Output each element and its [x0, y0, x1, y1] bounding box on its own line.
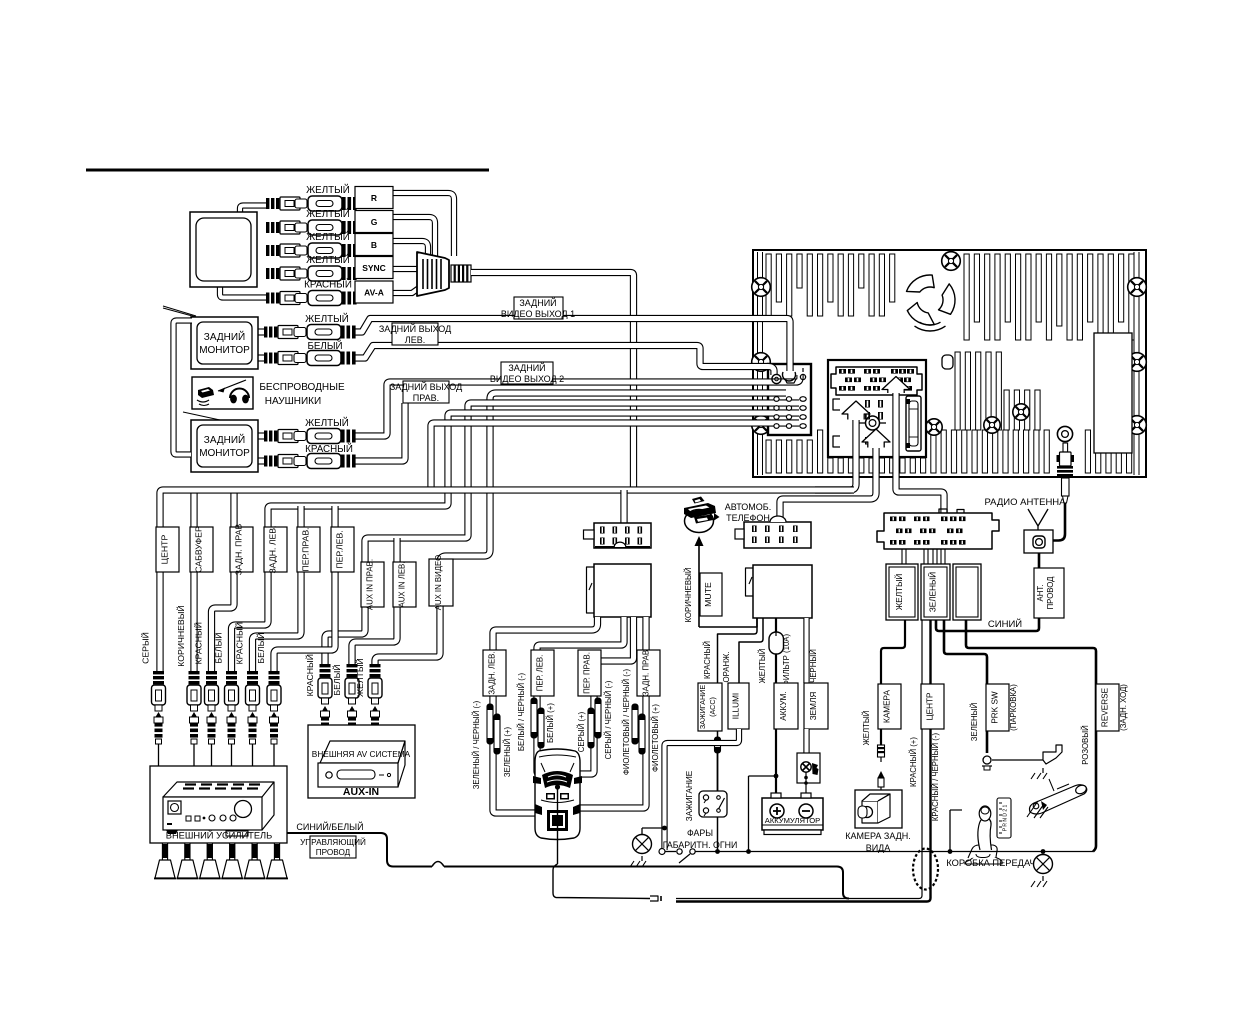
label box ЗАДНИЙ ВЫХОД ПРАВ	[403, 381, 449, 403]
wire plug gap	[650, 896, 658, 901]
label box УПРАВЛЯЮЩИЙ ПРОВОД	[310, 836, 356, 858]
svg-text:ЗАДН. ПРАВ: ЗАДН. ПРАВ	[234, 524, 244, 576]
svg-text:КОРОБКА ПЕРЕДАЧ: КОРОБКА ПЕРЕДАЧ	[946, 858, 1035, 868]
svg-text:ЦЕНТР: ЦЕНТР	[926, 692, 935, 720]
RCA female jack row R	[295, 199, 307, 208]
label box ILLUMI	[728, 683, 749, 729]
screw mid right	[1128, 353, 1147, 372]
svg-text:ЖЕЛТЫЙ: ЖЕЛТЫЙ	[354, 658, 365, 697]
svg-text:КРАСНЫЙ: КРАСНЫЙ	[304, 654, 315, 696]
RCA plug ЗАДН. ЛЕВ. column	[229, 712, 235, 717]
wire rca out 1 to aux video	[375, 393, 786, 664]
svg-text:G: G	[371, 217, 378, 227]
leader line rear monitor 2	[183, 412, 220, 420]
antenna cable	[1052, 503, 1065, 541]
svg-text:ЗЕЛЕНЫЙ: ЗЕЛЕНЫЙ	[970, 703, 979, 741]
RCA female jack m1 yellow	[294, 328, 306, 337]
svg-text:КОРИЧНЕВЫЙ: КОРИЧНЕВЫЙ	[175, 605, 186, 666]
svg-text:КРАСНЫЙ (+): КРАСНЫЙ (+)	[909, 737, 918, 787]
label box АНТ ПРОВОД	[1034, 568, 1064, 618]
wire to amplifier	[193, 744, 195, 766]
heatsink fins top left	[766, 254, 771, 316]
trapezoid multi connector	[417, 252, 449, 296]
RCA female jack m2 yellow	[294, 432, 306, 441]
RCA female jack row SYNC	[295, 269, 307, 278]
svg-text:ЗЕМЛЯ: ЗЕМЛЯ	[809, 692, 818, 721]
wire black ground pair	[803, 618, 809, 683]
wire to amplifier	[231, 744, 233, 766]
camera plug symbols	[878, 745, 885, 757]
RCA male plug row R	[266, 198, 269, 209]
iso connector A	[744, 522, 811, 548]
blank plate right	[1094, 333, 1132, 453]
RCA male plug m1 yellow	[264, 327, 267, 338]
svg-text:ЗАДН. ЛЕВ.: ЗАДН. ЛЕВ.	[488, 651, 497, 694]
wire yellow battery	[775, 618, 777, 683]
svg-text:ЖЕЛТЫЙ: ЖЕЛТЫЙ	[893, 574, 904, 611]
wire AV-A to trapezoid	[393, 288, 419, 293]
vent hole	[942, 355, 953, 369]
transmission arrow	[218, 380, 246, 391]
rca block pin grid	[774, 397, 779, 402]
RCA female jack row AV-A	[295, 294, 307, 303]
label box ЖЕЛТЫЙ wire	[886, 564, 918, 620]
svg-text:ЖЕЛТЫЙ: ЖЕЛТЫЙ	[305, 313, 349, 325]
svg-text:СИНИЙ/БЕЛЫЙ: СИНИЙ/БЕЛЫЙ	[296, 821, 363, 832]
RCA jack aux БЕЛЫЙ	[347, 664, 358, 667]
svg-text:НАУШНИКИ: НАУШНИКИ	[265, 396, 321, 407]
svg-text:AV-A: AV-A	[364, 288, 384, 298]
svg-text:ЗАДН. ЛЕВ.: ЗАДН. ЛЕВ.	[268, 525, 278, 573]
wire front right drop	[253, 506, 302, 671]
car trunk	[547, 810, 568, 831]
label box ЗАДНИЙ ВИДЕО ВЫХОД 2	[501, 362, 553, 384]
RCA plug САБВУФЕР column	[191, 712, 197, 717]
leader line monitor 1	[163, 306, 196, 316]
svg-text:КОРИЧНЕВЫЙ: КОРИЧНЕВЫЙ	[684, 567, 693, 622]
RCA female jack row G	[295, 223, 307, 232]
RCA male plug row AV-A	[266, 293, 269, 304]
car mirrors	[533, 776, 541, 784]
wire rear right speaker pair	[578, 617, 646, 808]
label box ЗАДНИЙ ВИДЕО ВЫХОД 1	[514, 297, 563, 319]
wire rear right drop	[212, 490, 235, 671]
RCA jack ЦЕНТР column	[153, 671, 164, 674]
label box ЗЕЛЕНЫЙ wire	[921, 564, 950, 620]
wire blue antenna lead	[936, 553, 1039, 631]
RCA male plug m1 white	[264, 353, 267, 364]
RCA female jack row B	[295, 246, 307, 255]
svg-text:ФАРЫ: ФАРЫ	[687, 828, 713, 838]
wires R G B to trapezoid connector	[393, 193, 454, 256]
chassis bolt box	[797, 753, 820, 783]
wire loop ellipse	[913, 849, 938, 890]
svg-text:БЕСПРОВОДНЫЕ: БЕСПРОВОДНЫЕ	[259, 382, 345, 393]
svg-text:МОНИТОР: МОНИТОР	[199, 345, 250, 356]
cable from trapezoid to AV bus	[471, 273, 634, 491]
svg-text:АНТ.: АНТ.	[1036, 585, 1045, 602]
cable arrow to power connector	[780, 448, 876, 517]
label box AUX IN ВИДЕО	[429, 559, 453, 606]
antenna jack on unit	[1057, 426, 1072, 441]
svg-text:СЕРЫЙ (+): СЕРЫЙ (+)	[577, 711, 586, 752]
screw bottom right	[1128, 416, 1147, 435]
rca block jack U	[783, 372, 796, 381]
label box ЗАДН. ПРАВ	[230, 527, 253, 572]
connector stubs to boxes	[901, 549, 903, 564]
rca output block	[768, 364, 811, 435]
wire lamp link	[642, 827, 665, 829]
svg-text:ПРОВОД: ПРОВОД	[1046, 576, 1055, 610]
svg-text:БЕЛЫЙ: БЕЛЫЙ	[255, 632, 266, 663]
svg-text:ЗАЖИГАНИЕ: ЗАЖИГАНИЕ	[698, 685, 707, 729]
RCA jack САБВУФЕР column	[189, 671, 200, 674]
svg-text:ЗАДН. ПРАВ: ЗАДН. ПРАВ	[642, 650, 651, 696]
cable arrow to main harness connector	[896, 393, 944, 514]
amp control wire	[287, 833, 432, 867]
component monitor box	[190, 212, 257, 287]
heatsink fins right edge column	[1133, 252, 1135, 475]
svg-text:ГАБАРИТН. ОГНИ: ГАБАРИТН. ОГНИ	[663, 840, 738, 850]
av system drawing	[320, 741, 405, 763]
RCA male plug row SYNC	[266, 268, 269, 279]
box third wire	[953, 564, 981, 620]
panel right connector	[906, 396, 921, 451]
wire to amplifier	[211, 744, 213, 766]
svg-text:ЖЕЛТЫЙ: ЖЕЛТЫЙ	[305, 417, 349, 429]
wire aux in left drop	[352, 538, 397, 664]
svg-text:ЗАДНИЙ ВЫХОД: ЗАДНИЙ ВЫХОД	[390, 381, 462, 392]
svg-text:ВНЕШНИЙ УСИЛИТЕЛЬ: ВНЕШНИЙ УСИЛИТЕЛЬ	[166, 830, 272, 841]
wire red link	[749, 775, 777, 777]
wire black to bolt	[803, 729, 809, 755]
label box САБВУФЕР	[190, 527, 213, 572]
iso socket pins row3	[839, 386, 846, 391]
label box ПЕР.ЛЕВ.	[331, 527, 354, 572]
svg-text:САБВУФЕР: САБВУФЕР	[194, 526, 204, 573]
svg-text:СИНИЙ: СИНИЙ	[988, 618, 1022, 630]
svg-text:ЗАДНИЙ ВЫХОД: ЗАДНИЙ ВЫХОД	[379, 323, 451, 334]
svg-text:БЕЛЫЙ (+): БЕЛЫЙ (+)	[546, 703, 555, 743]
svg-text:ОРАНЖ.: ОРАНЖ.	[722, 652, 731, 683]
svg-text:ЖЕЛТЫЙ: ЖЕЛТЫЙ	[306, 184, 350, 196]
svg-text:БЕЛЫЙ: БЕЛЫЙ	[331, 664, 342, 695]
mute wire with arrow	[698, 545, 700, 627]
headphone transmitter icon	[198, 387, 214, 398]
svg-text:ЗАДНИЙ: ЗАДНИЙ	[204, 330, 245, 343]
external amplifier box	[150, 766, 287, 843]
antenna plug	[1063, 443, 1068, 452]
svg-text:ВНЕШНЯЯ AV СИСТЕМА: ВНЕШНЯЯ AV СИСТЕМА	[312, 749, 411, 759]
wire ignition acc	[718, 618, 758, 683]
wire rca out 3 speaker bus	[232, 413, 800, 671]
screw inner 2	[984, 417, 1000, 433]
RCA plug aux КРАСНЫЙ	[322, 706, 328, 711]
svg-text:КРАСНЫЙ: КРАСНЫЙ	[193, 622, 204, 664]
svg-text:ВИДЕО ВЫХОД 2: ВИДЕО ВЫХОД 2	[490, 374, 564, 384]
speaker connector body	[594, 564, 651, 617]
screw bottom left	[752, 416, 771, 435]
screw top left	[752, 278, 771, 297]
svg-text:(ПАРКОВКА): (ПАРКОВКА)	[1009, 684, 1018, 731]
crimp connectors rear left	[487, 704, 493, 744]
amplifier drawing	[163, 782, 274, 797]
label box ЗАДН ПРАВ speaker	[637, 650, 660, 696]
wire m1 white to head unit	[353, 346, 774, 376]
main harness connector 16pin	[877, 513, 999, 549]
label box ЗАДНИЙ ВЫХОД ЛЕВ	[392, 323, 438, 345]
RCA plug ПЕР.ПРАВ. column	[250, 712, 256, 717]
label box R	[355, 187, 393, 209]
svg-text:ПЕР. ЛЕВ.: ПЕР. ЛЕВ.	[536, 655, 545, 692]
wire to amplifier	[158, 744, 160, 766]
svg-text:КРАСНЫЙ: КРАСНЫЙ	[304, 279, 352, 291]
RCA plug ЗАДН. ПРАВ column	[209, 712, 215, 717]
RCA male plug row G	[266, 222, 269, 233]
wire red pair from harness	[676, 620, 922, 899]
leader line rear monitor 1	[163, 308, 196, 317]
fuse filter oval	[769, 632, 784, 654]
wire m2 red	[353, 403, 405, 461]
label box MUTE	[700, 573, 722, 616]
label box SYNC	[355, 257, 393, 279]
screw inner 1	[926, 419, 942, 435]
wire rca out 2 aux in bus	[325, 403, 799, 664]
svg-text:КРАСНЫЙ: КРАСНЫЙ	[703, 641, 712, 679]
svg-text:ЗЕЛЕНЫЙ: ЗЕЛЕНЫЙ	[927, 572, 938, 612]
svg-text:РОЗОВЫЙ: РОЗОВЫЙ	[1081, 725, 1090, 765]
svg-text:РАДИО АНТЕННА: РАДИО АНТЕННА	[984, 497, 1066, 508]
svg-text:ЖЕЛТЫЙ: ЖЕЛТЫЙ	[306, 254, 350, 266]
svg-text:КАМЕРА: КАМЕРА	[883, 690, 892, 723]
main connector panel	[828, 360, 926, 457]
svg-text:B: B	[371, 240, 377, 250]
cable ribs	[451, 265, 454, 282]
gear indicator panel	[997, 798, 1011, 838]
heatsink fins left edge column	[757, 252, 759, 475]
external AV system box	[308, 725, 415, 798]
svg-text:ЗАДНИЙ: ЗАДНИЙ	[519, 297, 556, 308]
panel left brackets	[833, 399, 840, 410]
svg-text:ЖЕЛТЫЙ: ЖЕЛТЫЙ	[306, 208, 350, 220]
svg-text:АВТОМОБ.: АВТОМОБ.	[725, 502, 771, 512]
cable arrow to speaker connector	[815, 420, 856, 490]
iso socket pins row1	[839, 369, 846, 374]
ground handbrake	[1042, 768, 1044, 773]
wire illumi below	[665, 729, 740, 850]
svg-text:СЕРЫЙ / ЧЕРНЫЙ (-): СЕРЫЙ / ЧЕРНЫЙ (-)	[604, 680, 613, 759]
svg-text:КРАСНЫЙ / ЧЕРНЫЙ (-): КРАСНЫЙ / ЧЕРНЫЙ (-)	[931, 733, 940, 822]
svg-text:ФИОЛЕТОВЫЙ / ЧЕРНЫЙ (-): ФИОЛЕТОВЫЙ / ЧЕРНЫЙ (-)	[622, 668, 631, 775]
jump over	[432, 862, 444, 867]
svg-text:МОНИТОР: МОНИТОР	[199, 448, 250, 459]
label box G	[355, 211, 393, 233]
svg-text:БЕЛЫЙ / ЧЕРНЫЙ (-): БЕЛЫЙ / ЧЕРНЫЙ (-)	[517, 673, 526, 752]
handbrake bracket	[1043, 745, 1062, 764]
RCA plug aux ЖЕЛТЫЙ	[372, 706, 378, 711]
svg-text:AUX IN ЛЕВ.: AUX IN ЛЕВ.	[398, 562, 407, 608]
label box AUX IN ЛЕВ	[393, 562, 416, 607]
svg-text:R: R	[371, 193, 377, 203]
RCA jack ПЕР.ЛЕВ. column	[269, 671, 280, 674]
svg-text:ФИОЛЕТОВЫЙ (+): ФИОЛЕТОВЫЙ (+)	[651, 704, 660, 772]
wireless headphones box	[192, 377, 253, 409]
svg-text:АККУМУЛЯТОР: АККУМУЛЯТОР	[765, 816, 820, 825]
svg-text:ЗАДНИЙ: ЗАДНИЙ	[508, 362, 545, 373]
svg-text:REVERSE: REVERSE	[1101, 687, 1110, 727]
rca block jack pin	[800, 374, 805, 379]
car center dot	[555, 784, 560, 789]
car windshield	[542, 771, 573, 788]
wire green parking	[944, 620, 987, 753]
svg-text:ЗЕЛЕНЫЙ / ЧЕРНЫЙ (-): ЗЕЛЕНЫЙ / ЧЕРНЫЙ (-)	[472, 700, 481, 789]
ignition switch box	[699, 791, 727, 817]
rca block jack 1	[772, 374, 781, 383]
RCA female jack m2 red	[294, 457, 306, 466]
wire acc below	[717, 731, 719, 737]
svg-text:AUX IN ПРАВ.: AUX IN ПРАВ.	[366, 559, 375, 610]
crimp connectors front right	[588, 708, 594, 748]
svg-text:ЦЕНТР: ЦЕНТР	[160, 535, 170, 565]
svg-text:PRK SW: PRK SW	[991, 691, 1000, 724]
crimp connectors front left	[531, 698, 537, 738]
svg-text:ПЕР.ПРАВ.: ПЕР.ПРАВ.	[301, 527, 311, 571]
wire to amplifier	[252, 744, 254, 766]
label box B	[355, 234, 393, 256]
label box REVERSE	[1096, 684, 1119, 731]
cable head unit to speaker connector	[620, 490, 627, 523]
wire front left speaker pair	[537, 617, 624, 774]
svg-text:ILLUMI: ILLUMI	[732, 693, 741, 719]
wire rca out 4 to center bus	[431, 423, 799, 490]
headphones icon	[230, 395, 237, 404]
wire SYNC to trapezoid	[393, 266, 418, 272]
wire ignition to bus	[717, 817, 719, 852]
wire m2 yellow video out 2	[353, 375, 800, 436]
RCA jack ПЕР.ПРАВ. column	[247, 671, 258, 674]
gearbox wire	[949, 810, 951, 852]
svg-text:КРАСНЫЙ: КРАСНЫЙ	[234, 622, 245, 664]
gear shifter drawing	[965, 855, 1002, 864]
fan grille	[907, 275, 935, 292]
ground lamp	[641, 856, 643, 861]
svg-text:ЖЕЛТЫЙ: ЖЕЛТЫЙ	[306, 231, 350, 243]
svg-text:КАМЕРА ЗАДН.: КАМЕРА ЗАДН.	[845, 831, 910, 841]
label box ЦЕНТР	[921, 684, 944, 729]
car phone icon	[684, 503, 716, 518]
svg-text:ЗАЖИГАНИЕ: ЗАЖИГАНИЕ	[685, 770, 694, 821]
screw inner 3	[1013, 404, 1029, 420]
svg-text:ЖЕЛТЫЙ: ЖЕЛТЫЙ	[758, 649, 767, 684]
svg-text:MUTE: MUTE	[703, 582, 713, 607]
lamp headlights	[633, 835, 652, 854]
screw mid left	[752, 353, 771, 372]
top rule	[86, 169, 489, 172]
label box AUX IN ПРАВ	[361, 562, 384, 607]
svg-text:ВИДЕО ВЫХОД 1: ВИДЕО ВЫХОД 1	[501, 309, 575, 319]
lamp gearbox	[1034, 855, 1053, 874]
radio antenna box	[1024, 530, 1053, 553]
label box ЗАДН. ЛЕВ.	[264, 527, 287, 572]
svg-text:УПРАВЛЯЮЩИЙ: УПРАВЛЯЮЩИЙ	[300, 836, 366, 847]
crimp connectors rear right	[632, 704, 638, 744]
RCA jack aux ЖЕЛТЫЙ	[370, 664, 381, 667]
RCA plug ПЕР.ЛЕВ. column	[271, 712, 277, 717]
RCA jack aux КРАСНЫЙ	[320, 664, 331, 667]
RCA male plug row B	[266, 245, 269, 256]
wire to amplifier	[273, 744, 275, 766]
svg-text:ЗАДНИЙ: ЗАДНИЙ	[204, 433, 245, 446]
svg-text:AUX IN ВИДЕО: AUX IN ВИДЕО	[434, 555, 443, 611]
car rear speakers	[535, 804, 542, 815]
heatsink fins top right	[964, 254, 969, 340]
iso socket outline	[831, 367, 922, 395]
wire front left drop	[274, 506, 335, 671]
label box ЗАЖИГАНИЕ ACC	[698, 683, 722, 731]
svg-text:ПРОВОД: ПРОВОД	[316, 848, 351, 857]
svg-text:ПЕР. ПРАВ.: ПЕР. ПРАВ.	[583, 652, 592, 694]
RCA male plug m2 yellow	[264, 431, 267, 442]
wire subwoofer drop	[190, 490, 197, 671]
wire m1 yellow to head unit	[353, 319, 790, 372]
wire illumination	[739, 618, 763, 683]
svg-text:(ЗАДН. ХОД): (ЗАДН. ХОД)	[1119, 684, 1128, 731]
heatsink fins bottom row	[766, 440, 771, 473]
svg-text:ПРАВ.: ПРАВ.	[413, 393, 439, 403]
label box ЗЕМЛЯ	[804, 683, 828, 729]
wire yellow to battery	[775, 729, 777, 793]
label box AV-A	[355, 281, 393, 303]
svg-text:СЕРЫЙ: СЕРЫЙ	[140, 632, 151, 664]
panel center pins	[865, 400, 870, 408]
label box ПЕР ЛЕВ speaker	[531, 650, 554, 696]
antenna symbol	[1028, 509, 1038, 526]
svg-text:(АСС): (АСС)	[708, 697, 717, 717]
wire rear left speaker pair	[493, 617, 598, 813]
svg-text:AUX-IN: AUX-IN	[343, 786, 379, 798]
panel center circle	[866, 416, 880, 430]
wire reverse pink	[966, 620, 1096, 852]
RCA plug ЦЕНТР column	[156, 712, 162, 717]
svg-text:P R N D 2 1: P R N D 2 1	[1003, 804, 1009, 831]
rear monitor 2 box	[191, 420, 258, 472]
RCA jack ЗАДН. ЛЕВ. column	[226, 671, 237, 674]
iso socket pins row2	[845, 378, 852, 383]
car antenna wire down	[557, 789, 559, 864]
rear monitor 1 box	[191, 317, 258, 369]
wire camera yellow	[881, 620, 905, 745]
svg-text:ЧЕРНЫЙ: ЧЕРНЫЙ	[809, 649, 818, 683]
svg-text:БЕЛЫЙ: БЕЛЫЙ	[213, 632, 224, 663]
label box ПЕР ПРАВ speaker	[578, 650, 601, 696]
camera box	[855, 790, 902, 828]
parking brake switch	[983, 756, 991, 764]
bus center line	[160, 490, 854, 671]
power connector body	[753, 565, 812, 618]
wire R to monitor	[240, 206, 268, 215]
speakers	[161, 843, 163, 860]
label box PRK SW	[986, 684, 1009, 731]
car top view	[535, 749, 580, 840]
svg-text:АККУМ.: АККУМ.	[779, 691, 788, 720]
label box ПЕР.ПРАВ.	[297, 527, 320, 572]
handbrake lever	[1030, 785, 1087, 814]
RCA female jack m1 white	[294, 354, 306, 363]
battery	[762, 798, 823, 830]
speaker harness connector	[594, 523, 651, 548]
label box ЗАДН ЛЕВ speaker	[483, 650, 506, 696]
svg-text:ФИЛЬТР (10А): ФИЛЬТР (10А)	[782, 634, 791, 687]
